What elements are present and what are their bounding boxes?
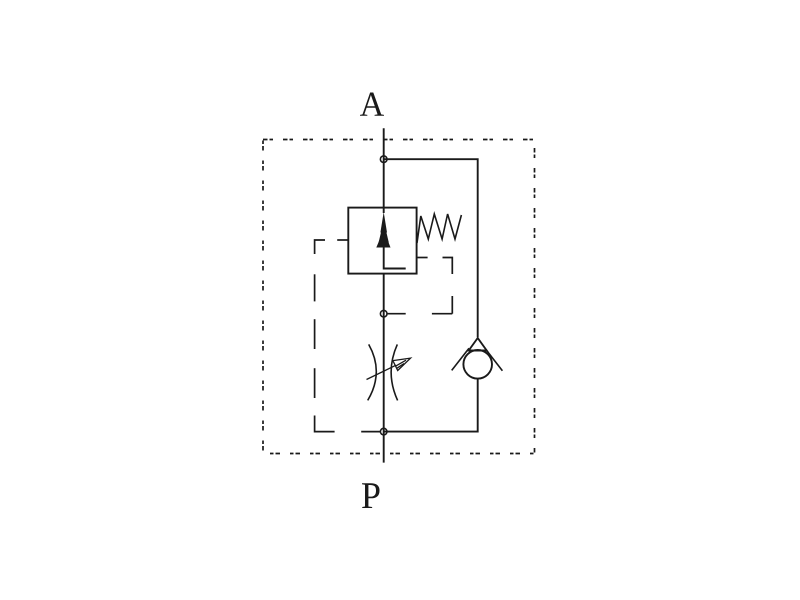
relief valve internal blocked path (384, 247, 406, 269)
wire port A to relief valve (383, 128, 385, 213)
check valve ball (463, 350, 492, 379)
pilot line right (dashed) (387, 258, 452, 314)
node 2 (380, 310, 387, 317)
port label A (360, 93, 384, 116)
wire check valve to node 3 (384, 379, 478, 432)
throttle valve arcs (368, 344, 398, 400)
pilot line left (dashed) (315, 240, 381, 432)
throttle adjustment arrow (367, 358, 411, 379)
relief valve flow arrow (376, 212, 390, 248)
node 3 (380, 428, 387, 435)
wire node1 to check valve branch (384, 159, 478, 337)
spring (417, 214, 461, 243)
relief valve V1 body (348, 208, 416, 274)
port label P (362, 483, 380, 508)
enclosure dashed border (263, 140, 535, 454)
check valve seat triangle (469, 338, 487, 351)
wire relief valve to throttle (383, 274, 385, 463)
check valve seat lines (452, 348, 503, 370)
node 1 (380, 156, 387, 163)
